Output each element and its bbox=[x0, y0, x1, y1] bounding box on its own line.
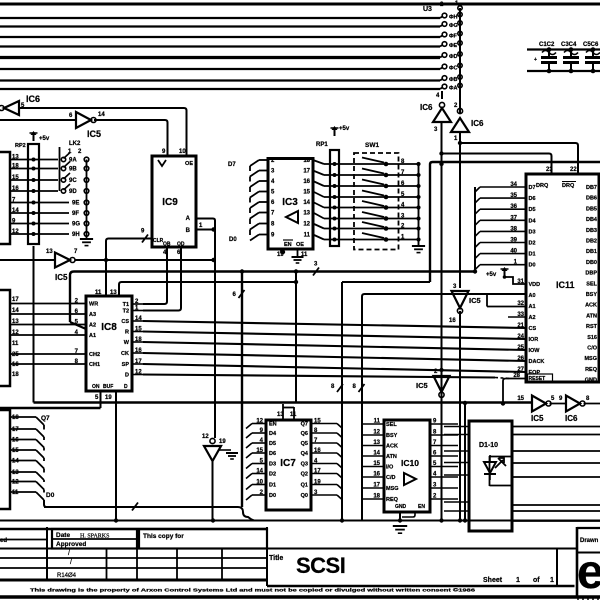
svg-text:A0: A0 bbox=[529, 293, 536, 299]
svg-text:BUF: BUF bbox=[103, 384, 113, 390]
svg-text:D1: D1 bbox=[269, 483, 276, 489]
svg-text:25: 25 bbox=[517, 345, 524, 351]
svg-text:DBP: DBP bbox=[585, 271, 597, 277]
svg-text:+5v: +5v bbox=[486, 272, 497, 278]
svg-text:ΦF: ΦF bbox=[449, 34, 458, 40]
svg-text:IOR: IOR bbox=[529, 337, 539, 343]
svg-text:+: + bbox=[534, 57, 537, 63]
svg-text:DB4: DB4 bbox=[586, 217, 598, 223]
svg-text:D4: D4 bbox=[269, 431, 277, 437]
svg-text:Title: Title bbox=[269, 555, 283, 562]
svg-text:EN: EN bbox=[269, 422, 277, 428]
svg-text:DB0: DB0 bbox=[586, 260, 597, 266]
svg-text:B: B bbox=[186, 228, 191, 234]
svg-text:ΦB: ΦB bbox=[449, 77, 458, 83]
svg-text:IC7: IC7 bbox=[280, 458, 296, 469]
svg-text:SEL: SEL bbox=[586, 281, 597, 287]
svg-text:16: 16 bbox=[303, 179, 310, 185]
svg-text:IC9: IC9 bbox=[162, 197, 178, 208]
svg-text:EN: EN bbox=[284, 242, 292, 248]
svg-text:I/O: I/O bbox=[386, 465, 394, 471]
svg-text:This copy for: This copy for bbox=[143, 533, 184, 540]
svg-text:REQ: REQ bbox=[585, 367, 598, 373]
svg-text:ON: ON bbox=[92, 384, 100, 390]
svg-text:C3C4: C3C4 bbox=[561, 42, 577, 48]
svg-text:D2: D2 bbox=[269, 472, 276, 478]
svg-text:A2: A2 bbox=[529, 315, 536, 321]
svg-text:D0: D0 bbox=[529, 263, 536, 269]
svg-text:D5: D5 bbox=[269, 441, 276, 447]
svg-text:IC3: IC3 bbox=[282, 197, 298, 208]
svg-text:DB7: DB7 bbox=[586, 185, 597, 191]
svg-text:W: W bbox=[124, 340, 130, 346]
svg-text:DB2: DB2 bbox=[586, 239, 597, 245]
svg-text:Q1: Q1 bbox=[301, 483, 308, 489]
svg-text:C5C6: C5C6 bbox=[583, 42, 599, 48]
svg-text:IC6: IC6 bbox=[26, 94, 40, 104]
svg-text:D0: D0 bbox=[269, 493, 276, 499]
svg-text:DRQ: DRQ bbox=[536, 183, 549, 189]
svg-text:38: 38 bbox=[510, 226, 517, 232]
svg-text:19: 19 bbox=[105, 395, 112, 401]
svg-text:D7: D7 bbox=[529, 185, 536, 191]
svg-text:T2: T2 bbox=[123, 309, 129, 315]
svg-text:DB6: DB6 bbox=[586, 196, 597, 202]
svg-text:31: 31 bbox=[517, 279, 524, 285]
svg-text:36: 36 bbox=[510, 204, 517, 210]
svg-text:9A: 9A bbox=[69, 158, 77, 164]
svg-text:ΦD: ΦD bbox=[449, 54, 458, 60]
svg-text:21: 21 bbox=[517, 323, 524, 329]
svg-text:Q7: Q7 bbox=[301, 422, 308, 428]
svg-text:RESET: RESET bbox=[529, 376, 546, 382]
svg-text:IC5: IC5 bbox=[531, 414, 544, 423]
svg-text:A1: A1 bbox=[89, 333, 96, 339]
svg-text:12: 12 bbox=[12, 480, 19, 486]
svg-text:22: 22 bbox=[570, 167, 577, 173]
svg-text:e: e bbox=[577, 546, 600, 599]
svg-text:14: 14 bbox=[98, 112, 105, 118]
svg-text:D6: D6 bbox=[269, 451, 276, 457]
svg-text:10: 10 bbox=[179, 149, 186, 155]
svg-text:Sheet: Sheet bbox=[483, 577, 503, 584]
svg-text:34: 34 bbox=[510, 182, 517, 188]
svg-text:17: 17 bbox=[12, 297, 19, 303]
svg-text:U3: U3 bbox=[423, 6, 432, 13]
svg-text:9D: 9D bbox=[69, 189, 77, 195]
svg-text:12: 12 bbox=[202, 434, 209, 440]
svg-text:DB5: DB5 bbox=[586, 206, 597, 212]
svg-text:9E: 9E bbox=[72, 201, 79, 207]
svg-text:D1-10: D1-10 bbox=[479, 442, 498, 449]
svg-text:SCSI: SCSI bbox=[296, 553, 345, 578]
svg-text:IC5: IC5 bbox=[469, 296, 481, 305]
svg-text:ΦA: ΦA bbox=[449, 86, 458, 92]
svg-text:A: A bbox=[186, 216, 191, 222]
svg-text:17: 17 bbox=[12, 427, 19, 433]
svg-text:Q2: Q2 bbox=[301, 472, 308, 478]
svg-text:14: 14 bbox=[12, 459, 19, 465]
svg-text:D0: D0 bbox=[46, 492, 55, 499]
svg-text:9G: 9G bbox=[72, 222, 80, 228]
svg-text:BSY: BSY bbox=[586, 292, 598, 298]
svg-text:11: 11 bbox=[12, 341, 19, 347]
svg-text:OE: OE bbox=[185, 161, 193, 167]
svg-text:39: 39 bbox=[510, 238, 517, 244]
svg-text:17: 17 bbox=[303, 169, 310, 175]
svg-text:A1: A1 bbox=[529, 304, 536, 310]
svg-text:Q5: Q5 bbox=[301, 441, 308, 447]
svg-text:A3: A3 bbox=[89, 312, 96, 318]
svg-text:ΦE: ΦE bbox=[449, 43, 458, 49]
svg-text:Q3: Q3 bbox=[301, 462, 308, 468]
svg-text:11: 11 bbox=[12, 490, 19, 496]
svg-text:GND: GND bbox=[585, 378, 597, 384]
svg-text:SEL: SEL bbox=[386, 422, 397, 428]
svg-text:Drawn: Drawn bbox=[580, 538, 599, 544]
svg-text:MSG: MSG bbox=[584, 356, 597, 362]
svg-text:IC8: IC8 bbox=[101, 322, 117, 333]
svg-text:EN: EN bbox=[418, 504, 425, 510]
svg-text:T1: T1 bbox=[123, 302, 129, 308]
svg-text:ΦH: ΦH bbox=[449, 15, 458, 21]
svg-text:DB1: DB1 bbox=[586, 249, 597, 255]
svg-text:18: 18 bbox=[303, 158, 310, 164]
svg-text:/: / bbox=[68, 550, 70, 557]
svg-text:/: / bbox=[70, 559, 72, 566]
svg-text:WR: WR bbox=[89, 302, 98, 308]
svg-text:DB3: DB3 bbox=[586, 228, 597, 234]
svg-text:13: 13 bbox=[303, 211, 310, 217]
svg-text:RP1: RP1 bbox=[316, 142, 328, 148]
svg-text:RP2: RP2 bbox=[15, 143, 26, 149]
svg-text:CS: CS bbox=[529, 326, 537, 332]
svg-text:DACK: DACK bbox=[529, 359, 545, 365]
svg-text:25: 25 bbox=[12, 352, 19, 358]
svg-text:23: 23 bbox=[546, 167, 553, 173]
svg-text:RST: RST bbox=[586, 324, 598, 330]
svg-text:QD: QD bbox=[177, 242, 185, 248]
svg-text:Q7: Q7 bbox=[41, 415, 50, 422]
svg-text:ACK: ACK bbox=[386, 444, 398, 450]
svg-text:11: 11 bbox=[95, 290, 102, 296]
svg-text:11: 11 bbox=[304, 233, 311, 239]
svg-text:9C: 9C bbox=[69, 178, 77, 184]
svg-text:12: 12 bbox=[303, 222, 310, 228]
svg-text:CH2: CH2 bbox=[89, 352, 100, 358]
svg-text:of: of bbox=[533, 577, 540, 584]
svg-text:Q4: Q4 bbox=[301, 451, 309, 457]
svg-text:IC6: IC6 bbox=[565, 414, 578, 423]
svg-text:S16: S16 bbox=[587, 335, 597, 341]
svg-text:24: 24 bbox=[517, 334, 524, 340]
svg-text:9F: 9F bbox=[72, 211, 79, 217]
svg-text:+5v: +5v bbox=[39, 136, 50, 142]
svg-text:1: 1 bbox=[550, 577, 554, 584]
svg-text:D2: D2 bbox=[529, 241, 536, 247]
svg-text:18: 18 bbox=[12, 415, 19, 421]
svg-text:D4: D4 bbox=[529, 218, 537, 224]
svg-text:D3: D3 bbox=[269, 462, 276, 468]
svg-text:IC5: IC5 bbox=[416, 381, 428, 390]
svg-text:ΦG: ΦG bbox=[449, 23, 458, 29]
svg-text:DRQ: DRQ bbox=[562, 183, 575, 189]
svg-text:CS: CS bbox=[121, 319, 129, 325]
svg-text:ACK: ACK bbox=[585, 303, 597, 309]
svg-text:+5v: +5v bbox=[339, 126, 350, 132]
svg-text:IC10: IC10 bbox=[401, 458, 419, 468]
svg-text:ATN: ATN bbox=[386, 454, 397, 460]
svg-text:D7: D7 bbox=[228, 162, 236, 168]
svg-text:LK2: LK2 bbox=[69, 141, 81, 147]
svg-text:Date: Date bbox=[56, 532, 70, 539]
svg-text:D3: D3 bbox=[529, 229, 536, 235]
svg-text:11: 11 bbox=[301, 252, 308, 258]
svg-text:GND: GND bbox=[395, 504, 407, 510]
svg-text:13: 13 bbox=[46, 249, 53, 255]
svg-text:BSY: BSY bbox=[386, 433, 398, 439]
svg-text:VDD: VDD bbox=[529, 282, 541, 288]
svg-text:D5: D5 bbox=[529, 207, 536, 213]
svg-text:9B: 9B bbox=[69, 167, 77, 173]
svg-text:40: 40 bbox=[510, 249, 517, 255]
svg-text:16: 16 bbox=[12, 362, 19, 368]
svg-text:CH1: CH1 bbox=[89, 362, 100, 368]
svg-text:D: D bbox=[125, 373, 129, 379]
svg-text:IC11: IC11 bbox=[556, 280, 575, 290]
svg-text:IOW: IOW bbox=[529, 348, 541, 354]
svg-text:IC6: IC6 bbox=[420, 103, 433, 112]
svg-text:QB: QB bbox=[163, 242, 171, 248]
svg-text:R14Ø4: R14Ø4 bbox=[57, 573, 77, 579]
svg-text:MSG: MSG bbox=[386, 486, 399, 492]
svg-text:16: 16 bbox=[12, 438, 19, 444]
svg-text:35: 35 bbox=[510, 193, 517, 199]
svg-text:R: R bbox=[125, 330, 129, 336]
svg-text:CK: CK bbox=[121, 351, 129, 357]
svg-text:9H: 9H bbox=[72, 232, 80, 238]
svg-text:D1: D1 bbox=[529, 252, 536, 258]
svg-text:D: D bbox=[124, 384, 128, 390]
svg-text:13: 13 bbox=[12, 470, 19, 476]
svg-text:ΦC: ΦC bbox=[449, 66, 458, 72]
svg-text:16: 16 bbox=[449, 318, 456, 324]
svg-text:C/O: C/O bbox=[587, 346, 598, 352]
svg-text:26: 26 bbox=[517, 356, 524, 362]
svg-text:Q6: Q6 bbox=[301, 431, 308, 437]
svg-text:IC5: IC5 bbox=[55, 273, 68, 282]
svg-text:Approved: Approved bbox=[56, 541, 86, 548]
svg-text:SW1: SW1 bbox=[365, 142, 379, 149]
svg-text:IC6: IC6 bbox=[471, 119, 484, 128]
svg-text:This drawing is the property o: This drawing is the property of Arxon Co… bbox=[30, 587, 476, 593]
svg-text:Q0: Q0 bbox=[301, 493, 308, 499]
svg-text:SP: SP bbox=[122, 362, 130, 368]
svg-text:13: 13 bbox=[110, 290, 117, 296]
svg-text:18: 18 bbox=[12, 372, 19, 378]
svg-text:19: 19 bbox=[219, 439, 226, 445]
svg-text:IC5: IC5 bbox=[87, 129, 101, 139]
svg-text:1: 1 bbox=[516, 577, 520, 584]
svg-text:D0: D0 bbox=[229, 237, 237, 243]
svg-text:C1C2: C1C2 bbox=[539, 42, 555, 48]
svg-text:A2: A2 bbox=[89, 323, 96, 329]
svg-text:15: 15 bbox=[12, 448, 19, 454]
svg-text:14: 14 bbox=[303, 200, 310, 206]
svg-text:ATN: ATN bbox=[586, 313, 597, 319]
svg-text:C/D: C/D bbox=[386, 475, 396, 481]
svg-text:15: 15 bbox=[303, 190, 310, 196]
svg-text:37: 37 bbox=[510, 215, 517, 221]
svg-text:REQ: REQ bbox=[386, 497, 399, 503]
svg-text:15: 15 bbox=[517, 396, 524, 402]
svg-text:D6: D6 bbox=[529, 196, 536, 202]
svg-text:OE: OE bbox=[296, 242, 304, 248]
